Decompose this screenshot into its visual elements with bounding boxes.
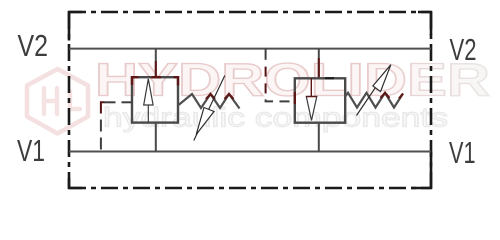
valve V2A top edge dark segment xyxy=(325,77,334,79)
valve V1A adjustment arrow shaft xyxy=(194,76,225,141)
valve V2A top connector wire xyxy=(318,49,320,79)
svg-text:V1: V1 xyxy=(449,136,476,170)
relief valve V2A body xyxy=(295,78,345,122)
enclosure dashed border top xyxy=(69,11,431,14)
valve V1A top connector wire xyxy=(155,49,157,78)
valve V1A adjustment arrow head xyxy=(196,108,214,135)
valve V1A spring maroon peaks xyxy=(206,94,234,99)
valve V1A arrow stem xyxy=(147,105,149,123)
relief valve V1A body xyxy=(132,77,178,122)
relief valve V1A body maroon corners xyxy=(132,77,178,85)
valve V2A bottom connector wire xyxy=(318,123,320,152)
valve V1A pilot corner maroon xyxy=(101,102,105,113)
valve V2A arrow stem maroon xyxy=(310,78,312,96)
watermark logo hexagon xyxy=(27,69,88,134)
valve V2A pilot line dashes xyxy=(266,49,290,102)
V2 line xyxy=(69,48,431,50)
valve V2A adjustment arrow shaft xyxy=(357,65,391,116)
valve V2A flow arrow xyxy=(306,97,317,121)
enclosure dashed border bottom xyxy=(69,187,431,190)
valve V1A bottom connector wire xyxy=(155,123,157,152)
enclosure dashed border left xyxy=(68,12,71,188)
valve V2A arrow base maroon xyxy=(306,96,317,98)
valve V2A adjustment arrow head xyxy=(373,65,391,92)
relief valve V2A body maroon bits xyxy=(294,92,296,104)
valve V2A top connector maroon overlay xyxy=(318,58,320,78)
valve V2A pilot corner xyxy=(266,99,273,101)
enclosure dashed border right xyxy=(430,12,433,188)
valve V1A flow arrow xyxy=(144,79,153,105)
svg-text:V2: V2 xyxy=(18,29,49,63)
watermark logo monogram HL xyxy=(44,88,80,114)
valve V1A pilot line dashes xyxy=(101,102,132,149)
valve V1A spring xyxy=(179,94,240,109)
valve V1A top connector maroon overlay xyxy=(155,61,157,77)
valve V2A spring xyxy=(345,93,403,108)
svg-text:V1: V1 xyxy=(17,134,45,168)
svg-text:V2: V2 xyxy=(450,33,477,67)
V1 line xyxy=(69,151,431,153)
valve V2A spring maroon peaks xyxy=(381,93,404,99)
svg-text:hydraulic components: hydraulic components xyxy=(103,103,448,133)
border corner solids xyxy=(69,12,431,188)
valve V2A pilot maroon dashes xyxy=(265,67,267,94)
